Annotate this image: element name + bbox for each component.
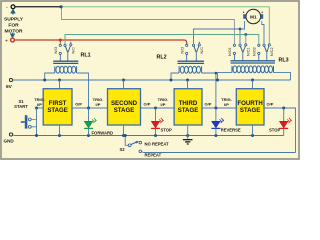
wire 6V rail: [13, 79, 291, 81]
svg-text:I/P: I/P: [96, 102, 101, 107]
junction node gnd LED3: [214, 134, 217, 137]
wire stage2 gnd drop: [123, 125, 125, 136]
junction node rail RL3 coil: [216, 79, 219, 82]
junction node S2 tap: [124, 134, 127, 137]
wire stage3 gnd drop: [187, 125, 189, 136]
wire RL1 coil right to O/P junction: [77, 73, 89, 108]
svg-text:SECOND: SECOND: [111, 100, 138, 107]
contact circle RL1 pivot: [64, 44, 66, 46]
contact circle S2 no-repeat: [139, 141, 142, 144]
svg-text:FOR: FOR: [8, 23, 19, 29]
svg-text:STOP: STOP: [269, 128, 281, 133]
svg-text:FORWARD: FORWARD: [92, 130, 114, 135]
wire stage2 supply drop: [123, 80, 125, 89]
svg-text:REVERSE: REVERSE: [221, 128, 241, 133]
contact circle S1 bottom: [28, 125, 31, 128]
junction node gnd stage4: [251, 134, 254, 137]
svg-text:STAGE: STAGE: [114, 107, 135, 114]
arrow down to plus terminal: [11, 33, 15, 38]
svg-text:O/P: O/P: [144, 102, 151, 107]
svg-text:NO REPEAT: NO REPEAT: [145, 142, 170, 147]
wire stage4 supply drop: [252, 80, 254, 89]
contact circle RL3 N/O1 top: [233, 44, 235, 46]
wire RL3 coil right to rail end: [274, 73, 291, 80]
wire stage1 gnd drop: [59, 125, 61, 136]
wire RL2 coil right to O/P junction: [202, 73, 216, 108]
svg-text:O/P: O/P: [75, 102, 82, 107]
svg-text:N/C2: N/C2: [270, 47, 274, 56]
LED1 FORWARD green: [84, 108, 97, 136]
coil RL2 winding: [179, 66, 202, 73]
contact circle RL3 N/O2 top: [258, 44, 260, 46]
junction node rail RL1 coil: [43, 79, 46, 82]
wire S1 vertical: [36, 108, 38, 136]
svg-text:REPEAT: REPEAT: [145, 152, 162, 157]
svg-text:I/P: I/P: [37, 102, 42, 107]
LED4 STOP red: [279, 108, 292, 136]
coil RL2 bars: [178, 61, 205, 63]
contact post RL2 N/C: [198, 42, 200, 44]
wire stage1 O/P to stage2: [72, 107, 108, 109]
junction node O/P stage2: [154, 107, 157, 110]
contact post RL3 N/C2: [268, 44, 270, 46]
motor M1 body: [246, 9, 261, 24]
wire green supply minus top: [61, 7, 269, 44]
junction node O/P stage4: [282, 107, 285, 110]
contact circle RL2 N/O bottom: [186, 52, 188, 54]
stage box U3 THIRD STAGE: [174, 89, 202, 125]
contact circle RL3 pivot1: [239, 44, 241, 46]
wire stage1 supply drop: [59, 80, 61, 89]
svg-text:I/P: I/P: [161, 102, 166, 107]
contact circle S1 top: [28, 118, 31, 121]
svg-text:RL2: RL2: [157, 55, 167, 61]
blade RL2: [194, 46, 196, 52]
blade RL1: [65, 46, 67, 52]
contact circle RL3 N/O1 bottom: [233, 52, 235, 54]
junction node gnd LED1: [87, 134, 90, 137]
junction node rail stage4: [251, 79, 254, 82]
junction node rail stage3: [186, 79, 189, 82]
wire RL3 coil left to rail: [218, 73, 233, 80]
svg-text:FOURTH: FOURTH: [237, 100, 262, 107]
contact post RL3 N/C1: [245, 44, 247, 46]
contact circle S2 common: [128, 144, 131, 147]
stubs RL3 contacts to coil: [234, 53, 266, 61]
wire red supply plus: [14, 40, 187, 44]
svg-text:GND: GND: [4, 139, 15, 144]
junction node O/P stage3: [214, 107, 217, 110]
motor terminal left: [243, 14, 246, 19]
coil RL1 bars: [53, 61, 78, 63]
junction node RL2 coil corner: [215, 72, 218, 75]
svg-text:S2: S2: [120, 147, 126, 152]
svg-text:N/O2: N/O2: [253, 47, 257, 56]
junction node gnd LED2: [154, 134, 157, 137]
contact circle RL2 N/O top: [186, 44, 188, 46]
wire stage3 O/P to stage4: [202, 107, 236, 109]
blade S2 with arrow: [131, 142, 137, 145]
svg-text:N/C1: N/C1: [246, 47, 250, 56]
junction node gnd S1: [35, 134, 38, 137]
wire RL1 coil left to rail: [45, 73, 55, 80]
svg-text:M1: M1: [250, 14, 257, 20]
wire RL1 N/O contact from red: [59, 40, 61, 44]
contact circle RL2 pivot: [192, 44, 194, 46]
coil RL3 winding: [232, 66, 274, 73]
wire stage1 trig input: [37, 107, 44, 109]
svg-text:N/C: N/C: [72, 47, 76, 54]
svg-text:O/P: O/P: [267, 102, 274, 107]
contact circle RL1 N/O top: [59, 44, 61, 46]
switch S1 plunger: [25, 115, 28, 128]
svg-text:RL1: RL1: [81, 53, 91, 59]
svg-text:SUPPLY: SUPPLY: [4, 17, 24, 23]
LED2 STOP red: [151, 108, 164, 136]
stubs S1 contacts: [31, 119, 36, 126]
junction node rail RL2 coil: [170, 79, 173, 82]
svg-text:THIRD: THIRD: [179, 100, 198, 107]
svg-text:FIRST: FIRST: [49, 100, 67, 107]
stubs RL2 contacts to coil: [187, 53, 197, 61]
junction node gnd stage2: [122, 134, 125, 137]
LED3 REVERSE blue: [211, 108, 224, 136]
stage box U4 FOURTH STAGE: [236, 89, 264, 125]
terminal GND: [9, 133, 12, 136]
wire S2 common from gnd rail: [125, 136, 128, 146]
wire RL3 pole1 pivot drop: [239, 29, 241, 44]
svg-text:STAGE: STAGE: [240, 107, 261, 114]
junction node on black wire: [59, 5, 62, 8]
junction node motor-left line to RL3 pole1: [239, 28, 242, 31]
wire stage3 supply drop: [187, 80, 189, 89]
svg-text:+: +: [5, 38, 8, 44]
junction node green common at N/C1: [244, 33, 247, 36]
junction node rail stage1: [58, 79, 61, 82]
svg-text:N/O1: N/O1: [228, 47, 232, 56]
junction node S1 top on trig wire: [35, 107, 38, 110]
terminal plus: [11, 38, 15, 42]
coil RL3 bars: [231, 61, 276, 63]
svg-text:STOP: STOP: [161, 128, 173, 133]
terminal minus: [11, 5, 15, 9]
svg-text:N/O: N/O: [54, 47, 58, 54]
junction node gnd stage3: [186, 134, 189, 137]
svg-text:STAGE: STAGE: [47, 107, 68, 114]
wire gray-blue supply minus branch: [62, 7, 235, 44]
wire GND rail: [13, 135, 284, 136]
wire black supply minus: [15, 6, 61, 8]
wire stage2 O/P to stage3: [141, 107, 175, 109]
svg-text:6V: 6V: [6, 84, 13, 90]
junction node on red wire at RL1: [59, 39, 62, 42]
junction node O/P stage1: [87, 107, 90, 110]
svg-text:STAGE: STAGE: [178, 107, 199, 114]
svg-text:N/C: N/C: [200, 47, 204, 54]
wire motor right terminal to RL3 pole2: [262, 21, 264, 44]
stage box U1 FIRST STAGE: [43, 89, 72, 125]
motor polarity marks: [243, 12, 244, 13]
blade RL3 pole1: [240, 46, 242, 52]
coil RL1 winding: [55, 66, 77, 73]
contact circle RL3 pivot2: [263, 44, 265, 46]
contact circle RL3 N/O2 bottom: [258, 52, 260, 54]
svg-text:O/P: O/P: [205, 102, 212, 107]
arrow up to minus terminal: [11, 9, 15, 14]
wire repeat line: [142, 151, 296, 154]
svg-text:-: -: [6, 5, 8, 11]
junction node gnd stage1: [58, 134, 61, 137]
stage box U2 SECOND STAGE: [108, 89, 141, 125]
svg-text:START: START: [14, 104, 28, 109]
junction node rail stage2: [122, 79, 125, 82]
wire RL2 coil left to rail: [171, 73, 179, 80]
blade RL3 pole2: [264, 46, 266, 52]
contact circle S2 repeat: [139, 150, 142, 153]
svg-text:N/O: N/O: [181, 47, 185, 54]
wire stage4 O/P to repeat loop: [264, 108, 296, 153]
contact circle RL1 N/O bottom: [59, 52, 61, 54]
wire green common: [65, 35, 259, 45]
svg-text:I/P: I/P: [224, 102, 229, 107]
stubs RL1 contacts to coil: [60, 53, 68, 61]
border frame: [1, 1, 299, 159]
wire stage4 gnd drop: [252, 125, 254, 136]
motor terminal right: [260, 14, 263, 19]
terminal 6V: [9, 78, 12, 81]
contact post RL1 N/C: [70, 42, 72, 44]
wire motor left terminal to RL2 pole: [194, 21, 245, 44]
wire drop to RL3 N/C1 contact: [245, 35, 247, 44]
svg-text:RL3: RL3: [279, 58, 289, 64]
